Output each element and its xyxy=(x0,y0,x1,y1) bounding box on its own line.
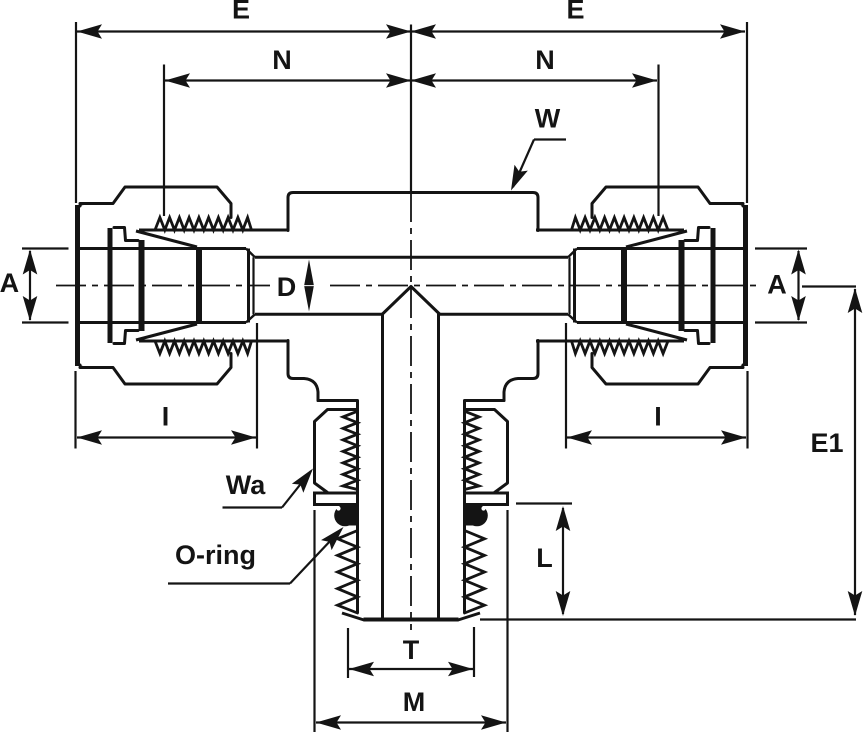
svg-text:Wa: Wa xyxy=(226,470,266,500)
svg-text:E: E xyxy=(566,0,584,25)
svg-text:M: M xyxy=(403,687,426,717)
svg-text:N: N xyxy=(535,45,555,75)
svg-text:I: I xyxy=(162,402,170,432)
svg-text:O-ring: O-ring xyxy=(175,540,256,570)
svg-text:E: E xyxy=(232,0,250,25)
svg-text:N: N xyxy=(272,45,292,75)
svg-text:A: A xyxy=(0,268,19,298)
svg-text:T: T xyxy=(403,635,420,665)
svg-text:E1: E1 xyxy=(810,428,843,458)
svg-text:L: L xyxy=(536,543,553,573)
svg-text:D: D xyxy=(277,272,297,302)
svg-text:W: W xyxy=(535,104,561,134)
svg-text:I: I xyxy=(654,402,662,432)
svg-text:A: A xyxy=(767,269,787,299)
